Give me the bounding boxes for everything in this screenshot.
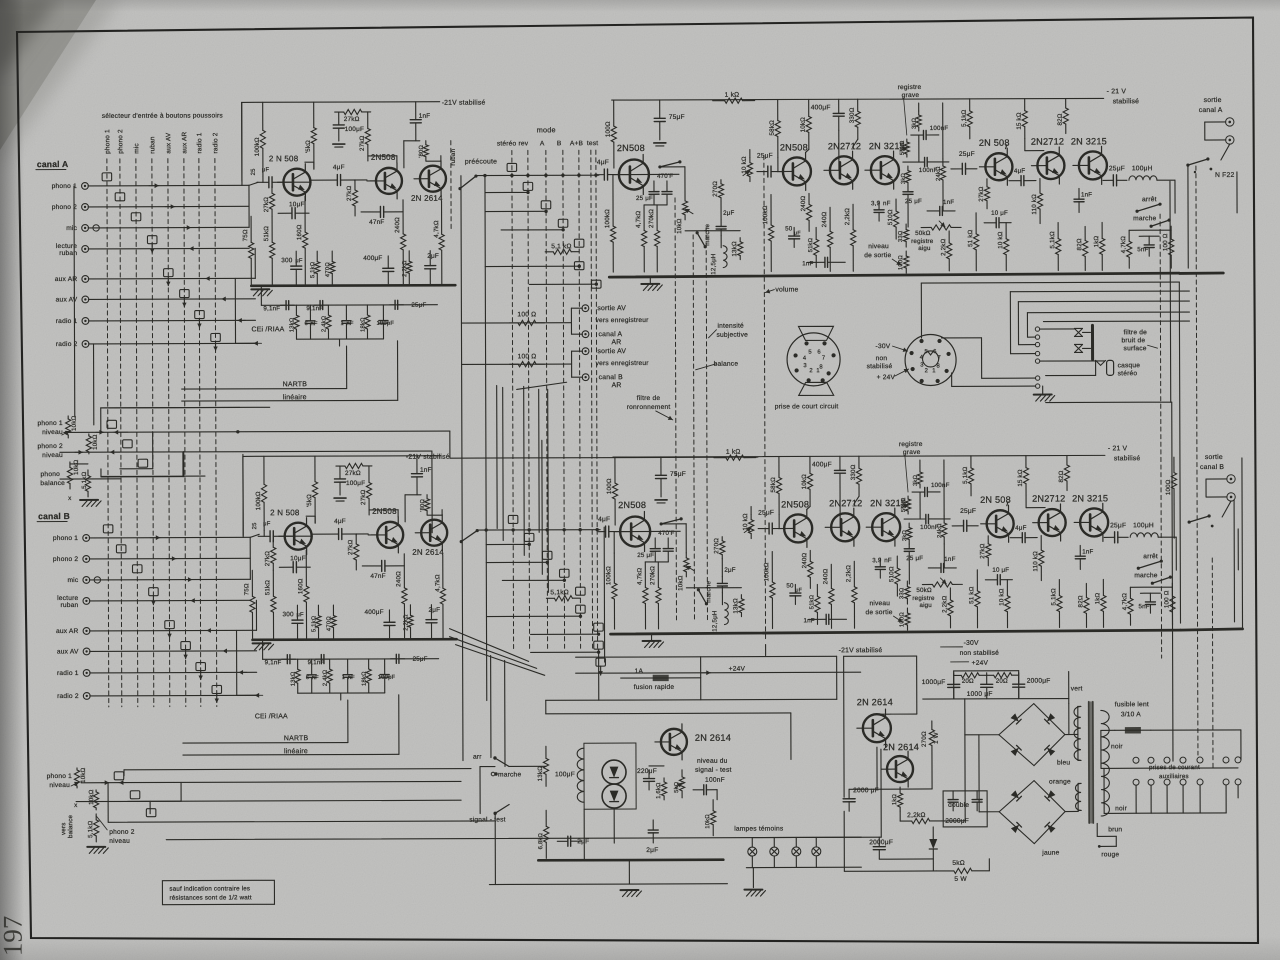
wire psu links: [844, 655, 917, 657]
connector canal A AR: [582, 331, 589, 338]
wire lineaire B: [183, 753, 399, 756]
input connector radio 1 canal A: [82, 318, 89, 325]
resistor 2,2k A: [852, 204, 854, 229]
svg-text:27kΩ: 27kΩ: [345, 470, 361, 477]
resistor 13k riaa B: [297, 659, 299, 669]
oscillator box: [584, 743, 636, 809]
wire row radio 2 canal A: [89, 342, 256, 345]
svg-text:4μF: 4μF: [597, 159, 609, 166]
ground osc: [628, 860, 630, 884]
input connector phono 1 canal A: [82, 183, 89, 190]
transistor 2N508 second B: [377, 522, 403, 548]
resistor 270ohm A: [720, 180, 722, 184]
svg-text:5: 5: [925, 349, 929, 355]
wire collector links B: [405, 494, 421, 496]
svg-text:25: 25: [252, 522, 258, 529]
wire bundle sortie to canal B 2: [502, 387, 505, 540]
wire canal B mode line: [477, 529, 600, 531]
svg-text:vers enregistreur: vers enregistreur: [596, 360, 650, 367]
svg-text:27kΩ: 27kΩ: [264, 551, 271, 567]
svg-text:niveau: niveau: [109, 838, 130, 845]
wire mid row 406: [101, 406, 270, 409]
svg-text:2,4kΩ: 2,4kΩ: [323, 669, 329, 686]
wire transformer links: [1078, 705, 1081, 707]
svg-text:50kΩ: 50kΩ: [916, 587, 932, 594]
wire osc top: [546, 712, 791, 715]
svg-text:4,7kΩ: 4,7kΩ: [1120, 236, 1127, 254]
svg-text:18kΩ: 18kΩ: [362, 671, 368, 686]
svg-text:linéaire: linéaire: [284, 748, 308, 755]
svg-text:82Ω: 82Ω: [1077, 595, 1084, 607]
svg-text:100nF: 100nF: [705, 777, 725, 784]
svg-text:270kΩ: 270kΩ: [648, 209, 655, 228]
ground bus osc: [538, 858, 723, 861]
svg-text:10kΩ: 10kΩ: [73, 459, 80, 475]
svg-text:μF: μF: [262, 167, 270, 173]
resistor 5,1k balance: [87, 470, 89, 475]
wire +rail amp B: [613, 455, 1105, 457]
svg-text:1nF: 1nF: [802, 260, 813, 267]
svg-text:bruit de: bruit de: [1122, 337, 1146, 344]
wire output connectors A: [1205, 121, 1226, 123]
svg-text:5: 5: [808, 350, 812, 356]
svg-text:10kΩ: 10kΩ: [676, 218, 683, 234]
svg-text:radio 1: radio 1: [57, 670, 79, 677]
transistor 2N508 driver A: [619, 159, 649, 189]
input connector aux AR canal A: [82, 276, 89, 283]
capacitor 9,1nF b A: [314, 304, 320, 306]
resistor 10k c2 B: [809, 456, 811, 473]
svg-text:non: non: [876, 355, 888, 362]
svg-text:270Ω: 270Ω: [712, 181, 719, 197]
wire to aux bus: [1046, 401, 1172, 403]
svg-text:5kΩ: 5kΩ: [952, 860, 965, 867]
pin 2 socket1: [807, 378, 811, 382]
svg-text:2N2712: 2N2712: [1031, 137, 1064, 147]
svg-text:'5kΩ: '5kΩ: [305, 140, 312, 153]
transistor 2N2712 B: [831, 513, 859, 541]
pin 3 socket2: [911, 367, 915, 371]
svg-text:5,1kΩ: 5,1kΩ: [311, 615, 317, 632]
svg-text:signal - test: signal - test: [695, 767, 732, 774]
svg-text:canal B: canal B: [1200, 464, 1224, 471]
pin 8 socket2: [945, 369, 949, 373]
switch contact modeB r6: [576, 605, 586, 613]
wire osc bottom links: [583, 809, 585, 860]
svg-text:100Ω: 100Ω: [606, 478, 613, 494]
ground symbol preamp A: [251, 288, 269, 290]
wire amp stubs B: [613, 532, 615, 553]
svg-text:50: 50: [785, 225, 793, 232]
switch signal-test: [493, 812, 496, 815]
push switch aux AR canal B: [165, 621, 175, 629]
push switch radio 1 canal A: [195, 311, 205, 319]
resistor 100ohm sortie A: [509, 322, 517, 324]
pin 6 socket1: [822, 341, 826, 345]
resistor 4,7k emitter3 B: [442, 555, 444, 588]
regulator transistor 2N2614 b: [887, 756, 913, 782]
svg-text:240Ω: 240Ω: [821, 211, 828, 227]
svg-text:2,2kΩ: 2,2kΩ: [845, 565, 852, 583]
x-mark filter 2: [1075, 344, 1083, 352]
resistor 240ohm e2 A: [808, 193, 810, 204]
capacitor 47nF A: [361, 211, 380, 213]
wire riaa top A: [261, 304, 437, 307]
resistor 27k stage2 B: [368, 466, 370, 482]
svg-text:stabilisé: stabilisé: [867, 363, 893, 370]
resistor 5,1k emitter B: [317, 605, 319, 615]
svg-text:niveau: niveau: [42, 429, 63, 436]
svg-text:51kΩ: 51kΩ: [808, 237, 814, 252]
wire phono1 niveau line B: [81, 781, 461, 782]
potentiometer 50k grave B: [907, 496, 909, 499]
wire jack feed: [1040, 360, 1105, 362]
resistor 18k riaa A: [366, 305, 368, 315]
svg-text:sauf indication contraire les: sauf indication contraire les: [169, 885, 250, 892]
svg-text:marche: marche: [1134, 572, 1157, 579]
wire nest 1: [1009, 292, 1011, 354]
svg-text:1000 μF: 1000 μF: [967, 691, 993, 698]
svg-text:10kΩ: 10kΩ: [677, 575, 684, 591]
switch preecoute B: [461, 531, 477, 542]
resistor 27k base2 B: [355, 534, 357, 544]
ground bottom pots: [87, 846, 105, 848]
potentiometer 10k (B2): [95, 790, 97, 792]
switch contact B3: [146, 809, 156, 817]
capacitor 25uF coupling A: [757, 171, 768, 173]
capacitor 10uF B: [279, 566, 293, 568]
svg-text:jaune: jaune: [1041, 850, 1059, 857]
svg-text:2: 2: [925, 368, 928, 374]
wire nest 4: [1039, 328, 1075, 330]
svg-text:400μF: 400μF: [811, 104, 831, 111]
svg-text:100 Ω: 100 Ω: [517, 311, 536, 318]
svg-text:2μF: 2μF: [724, 567, 735, 574]
resistor 4,7k emitter3 A: [441, 201, 443, 234]
capacitor 100nF fb1 A: [911, 134, 924, 136]
svg-text:aigu: aigu: [918, 245, 931, 252]
svg-text:100nF: 100nF: [930, 125, 949, 132]
svg-text:aux AR: aux AR: [181, 132, 188, 154]
svg-text:NARTB: NARTB: [284, 735, 309, 742]
svg-text:2N2712: 2N2712: [828, 141, 861, 151]
svg-text:5,1 kΩ: 5,1 kΩ: [551, 243, 572, 250]
svg-text:240Ω: 240Ω: [801, 552, 808, 568]
switch contact mode r2: [523, 182, 533, 190]
svg-text:100 Ω: 100 Ω: [1162, 233, 1169, 251]
ground bus preamp B: [253, 638, 457, 641]
svg-text:1000μF: 1000μF: [922, 679, 946, 686]
wire selector verticals canal A: [241, 102, 243, 185]
svg-text:μF: μF: [794, 230, 801, 236]
svg-text:7: 7: [822, 356, 825, 362]
resistor 160ohm A: [304, 196, 306, 232]
svg-text:197: 197: [0, 916, 28, 957]
svg-text:51kΩ: 51kΩ: [263, 226, 270, 242]
wire brun: [1096, 823, 1098, 836]
svg-text:volume: volume: [775, 286, 798, 293]
svg-text:2N 508: 2N 508: [980, 495, 1011, 505]
svg-text:non stabilisé: non stabilisé: [960, 650, 1000, 657]
svg-text:grave: grave: [902, 92, 920, 99]
svg-text:15 kΩ: 15 kΩ: [1017, 469, 1024, 487]
svg-text:niveau du: niveau du: [697, 758, 728, 765]
svg-text:10kΩ: 10kΩ: [80, 767, 87, 783]
resistor 7.5k collector B: [314, 456, 316, 481]
inductor 12,5uH A: [723, 246, 727, 268]
pin 2 socket2: [920, 379, 924, 383]
svg-text:2N508: 2N508: [617, 143, 645, 153]
resistor 270ohm B: [721, 537, 723, 541]
resistor 240ohm B: [403, 554, 405, 588]
wire lamps bus: [752, 836, 861, 838]
svg-text:100 Ω: 100 Ω: [1163, 590, 1170, 608]
svg-text:marche: marche: [1133, 215, 1156, 222]
svg-text:registre: registre: [911, 238, 934, 245]
wire switch to osc: [509, 765, 546, 767]
svg-text:2N508: 2N508: [781, 499, 809, 509]
switch contact modeB r3: [542, 551, 552, 559]
svg-text:2μF: 2μF: [577, 838, 589, 845]
resistor 510ohm A: [895, 199, 897, 211]
svg-text:-21V stabilisé: -21V stabilisé: [839, 647, 883, 654]
svg-text:33Ω: 33Ω: [898, 230, 904, 242]
capacitor 50uF A: [793, 227, 795, 236]
wire row phono 1 canal A: [88, 184, 249, 187]
svg-text:radio 2: radio 2: [57, 693, 79, 700]
resistor 180ohm A: [425, 141, 427, 145]
svg-text:25 μF: 25 μF: [637, 552, 654, 559]
resistor 51k fb A: [815, 227, 817, 239]
svg-text:1nF: 1nF: [420, 467, 432, 474]
ground symbol preamp B: [253, 642, 271, 644]
wire mid staircase: [101, 406, 240, 408]
svg-text:4,7kΩ: 4,7kΩ: [1121, 593, 1128, 611]
svg-text:240Ω: 240Ω: [822, 568, 829, 584]
resistor 51k s2 A: [975, 213, 977, 234]
switch contact mode r6: [574, 262, 584, 270]
svg-text:100kΩ: 100kΩ: [762, 205, 769, 224]
svg-text:aux AV: aux AV: [57, 648, 79, 655]
transistor 2N3215 s2 B: [1080, 508, 1108, 536]
input connector lecture canal A: [82, 246, 89, 253]
resistor 3k fb2 A: [907, 166, 909, 170]
switch contact modeB r5: [576, 587, 586, 595]
wire aux top bus: [1101, 767, 1238, 769]
svg-text:75Ω: 75Ω: [243, 583, 250, 595]
wire fb net A: [918, 135, 920, 162]
capacitor 100pF A: [382, 305, 384, 321]
switch contact mode r4: [558, 219, 568, 227]
svg-text:μF: μF: [795, 587, 802, 593]
svg-text:51kΩ: 51kΩ: [809, 594, 815, 609]
svg-text:canal A: canal A: [37, 159, 69, 169]
svg-text:signal - test: signal - test: [469, 816, 506, 823]
resistor 5,1k mode: [545, 251, 553, 253]
capacitor 4uF s2 A: [1009, 180, 1021, 182]
ground bus preamp A: [251, 284, 455, 287]
svg-text:75Ω: 75Ω: [242, 229, 249, 241]
svg-text:phono 1: phono 1: [47, 773, 72, 780]
capacitor 100uF decoupling A: [338, 112, 340, 125]
svg-text:3kΩ: 3kΩ: [902, 529, 908, 541]
pin 4 socket1: [793, 353, 797, 357]
page corner shadow top-left: [0, 0, 96, 150]
svg-text:lampes témoins: lampes témoins: [734, 825, 784, 832]
resistor 5,1k emitter A: [316, 251, 318, 261]
svg-text:5,1kΩ: 5,1kΩ: [550, 589, 569, 596]
svg-text:phono 1: phono 1: [104, 129, 111, 154]
double 2000uF block: [943, 791, 987, 827]
switch tone B: [661, 519, 681, 524]
wire preamp left vertical B: [242, 456, 244, 535]
svg-text:24kΩ: 24kΩ: [936, 166, 942, 181]
svg-text:400μF: 400μF: [812, 461, 832, 468]
dashed vertical canal separator: [1196, 166, 1198, 755]
resistor 4,7k A: [643, 205, 645, 230]
svg-text:fusion rapide: fusion rapide: [634, 684, 675, 691]
diode osc 2: [602, 784, 626, 808]
svg-text:niveau: niveau: [869, 600, 890, 607]
svg-text:prises de courant: prises de courant: [1149, 764, 1200, 771]
capacitor 2uF out B: [430, 605, 432, 620]
svg-text:registre: registre: [899, 441, 923, 448]
svg-text:100kΩ: 100kΩ: [763, 562, 770, 581]
resistor 27k B: [272, 540, 274, 547]
resistor 5,1k (B): [95, 814, 97, 820]
switch contact mic canal B: [132, 565, 142, 573]
wire row aux AV canal A: [88, 298, 255, 301]
wire osc link column: [598, 649, 600, 700]
wire rouge: [1115, 836, 1117, 846]
svg-text:220μF: 220μF: [637, 768, 657, 775]
resistor 27k stage2 A: [367, 112, 369, 128]
svg-text:4μF: 4μF: [333, 164, 345, 171]
potentiometer 50k grave A: [906, 139, 908, 142]
capacitor 25uF fb A: [907, 187, 909, 192]
resistor 4,7k B: [644, 562, 646, 587]
resistor 33ohm B: [906, 581, 908, 586]
svg-text:1: 1: [340, 321, 343, 327]
svg-text:1 W: 1 W: [933, 732, 940, 744]
resistor 13k B: [740, 595, 742, 599]
ground balance: [80, 499, 98, 501]
capacitor 47nF B: [362, 565, 381, 567]
capacitor 1000uF b: [986, 673, 988, 684]
resistor 2,2k reg: [900, 820, 911, 822]
svg-text:stabilisé: stabilisé: [1114, 455, 1140, 462]
switch output selector B: [1222, 501, 1231, 517]
svg-text:5,1kΩ: 5,1kΩ: [1049, 231, 1056, 249]
svg-text:de sortie: de sortie: [865, 609, 892, 616]
capacitor 4uF in B: [598, 531, 605, 533]
test point circles: [1035, 327, 1039, 331]
svg-text:ronronnement: ronronnement: [627, 404, 671, 411]
capacitor 10uF s2 B: [985, 579, 997, 581]
capacitor 5nF B: [1149, 593, 1151, 602]
input connector aux AR canal B: [83, 628, 90, 635]
resistor 51k fb B: [816, 584, 818, 596]
wire emitter net A: [615, 173, 679, 175]
svg-text:10 μF: 10 μF: [992, 567, 1009, 574]
svg-text:300: 300: [282, 611, 294, 618]
wire bundle sortie to canal B 1: [496, 385, 498, 528]
svg-text:A: A: [540, 140, 545, 147]
svg-text:27kΩ: 27kΩ: [347, 539, 354, 555]
wire switch verticals: [490, 656, 492, 758]
wire diagonal bundle to switches: [450, 628, 529, 661]
capacitor 1nF s2 B: [1079, 545, 1081, 556]
svg-text:18kΩ: 18kΩ: [360, 317, 366, 332]
connector sortie AV B: [582, 348, 589, 355]
resistor 51k A: [271, 216, 273, 242]
resistor 13k A: [739, 238, 741, 242]
resistor 5,1k e A: [1057, 223, 1059, 239]
feedback network B: [919, 460, 921, 468]
wire collector links A: [404, 140, 420, 142]
switch contact modeB r4: [560, 569, 570, 577]
svg-text:510Ω: 510Ω: [887, 209, 894, 225]
svg-text:AR: AR: [612, 382, 622, 389]
svg-text:25μF: 25μF: [960, 508, 976, 515]
resistor 240ohm e2 B: [809, 550, 811, 561]
input connector mic canal B: [83, 577, 90, 584]
svg-text:CEi /RIAA: CEi /RIAA: [255, 713, 288, 720]
capacitor 1nF top A: [415, 102, 417, 120]
svg-text:2N 508: 2N 508: [979, 138, 1010, 148]
svg-text:5,1kΩ: 5,1kΩ: [310, 261, 316, 278]
switch contact B1: [114, 772, 124, 780]
svg-text:1nF: 1nF: [419, 113, 431, 120]
svg-text:27kΩ: 27kΩ: [360, 489, 367, 505]
svg-text:25μF: 25μF: [1109, 165, 1125, 172]
wire riaa bottom A: [297, 338, 384, 340]
wire aux verticals: [1135, 785, 1137, 813]
wire mode staircase: [485, 191, 528, 193]
capacitor 1nF b B: [808, 618, 826, 620]
wire +24V line: [576, 671, 861, 674]
svg-text:4μF: 4μF: [598, 516, 610, 523]
svg-text:10kΩ: 10kΩ: [88, 789, 95, 805]
transformer secondary coil 2: [1075, 783, 1081, 810]
resistor 13k riaa A: [295, 305, 297, 315]
svg-text:100Ω: 100Ω: [605, 121, 612, 137]
input connector radio 2 canal A: [82, 341, 89, 348]
wire socket2 top: [920, 283, 922, 338]
top edge shadow: [0, 0, 1280, 12]
svg-text:4,7kΩ: 4,7kΩ: [433, 220, 440, 238]
svg-text:25μF: 25μF: [413, 656, 428, 663]
capacitor 100nF fb1 B: [912, 491, 925, 493]
wire amp stubs A: [612, 175, 614, 196]
capacitor 2000uF c: [1018, 673, 1020, 684]
input connector aux AV canal A: [82, 296, 89, 303]
wire pin6 link: [942, 337, 982, 339]
capacitor 1nF top B: [416, 456, 418, 474]
resistor 240ohm 2 A: [829, 207, 831, 231]
svg-text:2μF: 2μF: [646, 847, 658, 854]
svg-text:330Ω: 330Ω: [850, 464, 857, 480]
svg-text:33Ω: 33Ω: [899, 587, 905, 599]
transformer core: [1088, 701, 1090, 823]
svg-text:2N508: 2N508: [618, 500, 646, 510]
svg-text:50kΩ: 50kΩ: [915, 230, 931, 237]
resistor 4,7k out A: [1128, 230, 1130, 241]
capacitor 25uF s2 A: [951, 168, 962, 170]
wire output stub B: [1237, 529, 1239, 570]
potentiometer 50k aigu B: [922, 583, 932, 585]
wire nest 2: [1017, 302, 1019, 345]
